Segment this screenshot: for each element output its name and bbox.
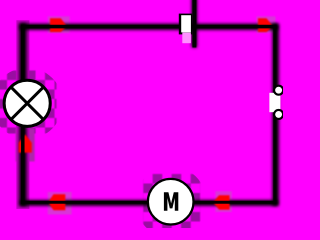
right wire halo [272,27,278,203]
highlight box around bottom-right current arrow [215,191,231,212]
top wire halo [23,24,275,30]
cell selection checker square (light pink) [182,33,191,44]
highlight box around top-left current arrow [48,16,70,33]
motor label M [164,192,178,211]
right wire core [273,27,276,203]
lamp cross filament stroke 2 [11,87,43,119]
motor selection checkerboard [143,174,200,231]
cell short (negative) plate body [181,15,191,32]
switch lever [269,93,280,112]
lamp cross filament stroke 1 [11,87,43,119]
cell long (positive) plate halo [192,0,198,48]
cell short (negative) plate outline [179,14,192,35]
left wire core [21,27,25,203]
bottom wire core [23,201,275,204]
switch terminal top [274,86,283,95]
left wire flat purple band [16,27,29,203]
current arrow top-left (pointing right) [50,18,67,32]
current arrow top-right (pointing right) [258,18,273,32]
motor body circle [148,179,194,225]
current arrow left side (pointing up) [19,134,32,152]
current arrow bottom-left (pointing left) [48,194,65,210]
highlight box around bottom-left current arrow [48,192,72,215]
lamp body circle [4,80,50,126]
current arrow bottom-right (pointing left) [213,195,230,209]
lamp selection checkerboard [0,71,57,134]
top wire core [23,25,275,29]
bottom wire halo [23,200,275,206]
left wire halo [19,27,26,203]
switch terminal bottom [274,110,283,119]
highlight box around top-right current arrow [257,16,276,33]
cell long (positive) plate [192,0,196,48]
highlight box around left current arrow [16,129,35,162]
